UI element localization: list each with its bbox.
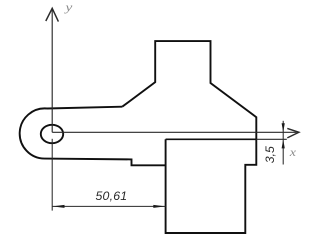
extension line below hole (left extension of 50,61) <box>51 139 53 211</box>
arrow above pointing down to x-axis (3,5) <box>282 123 285 132</box>
extension line right of rectangle top edge (for 3,5) <box>256 138 287 140</box>
part edge: rounded left end arc <box>20 108 47 158</box>
arrow below pointing up to edge (3,5) <box>282 140 285 149</box>
part edge: top of lower rectangle <box>166 138 257 140</box>
svg-text:x: x <box>289 147 297 159</box>
x-axis line <box>52 131 296 133</box>
arrow left of dimension 50,61 <box>52 205 64 208</box>
dimension line 50,61 <box>52 205 165 207</box>
svg-text:3,5: 3,5 <box>263 146 277 163</box>
x-axis arrowhead <box>287 128 299 138</box>
y-axis line <box>51 10 53 132</box>
dimension line 3,5 (vertical) <box>282 121 284 165</box>
y-axis arrowhead <box>46 8 59 21</box>
svg-text:y: y <box>64 0 73 14</box>
hole (ellipse) at left end <box>41 125 63 143</box>
svg-text:50,61: 50,61 <box>96 189 128 203</box>
arrow right of dimension 50,61 <box>153 205 165 208</box>
part outline <box>122 41 256 233</box>
part edge: top of arm <box>47 107 122 109</box>
part edge: arm bottom with step <box>45 159 166 166</box>
